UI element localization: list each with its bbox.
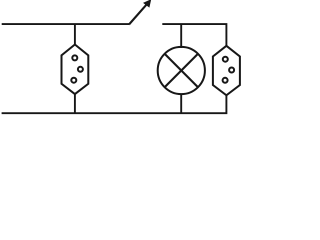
socket X1 hole 2 (middle right) bbox=[78, 67, 83, 72]
switch S1 arrowhead bbox=[144, 0, 150, 6]
wire: top rail to socket X1 bbox=[74, 24, 76, 46]
socket X2 hole 3 (bottom) bbox=[223, 78, 228, 83]
lamp L1 cross diagonal 1 bbox=[165, 54, 198, 87]
socket X1 hole 1 (top) bbox=[72, 55, 77, 60]
wire: socket X1 to bottom rail bbox=[74, 94, 76, 114]
wire: top rail left segment bbox=[2, 23, 129, 25]
wire: lamp L1 to bottom rail bbox=[180, 94, 182, 114]
socket X2 hole 2 (middle right) bbox=[229, 68, 234, 73]
wire: socket X2 to bottom rail with corner bbox=[2, 95, 227, 114]
socket X1 hexagon body bbox=[62, 45, 89, 95]
socket X1 hole 3 (bottom) bbox=[71, 78, 76, 83]
socket X2 hexagon body bbox=[213, 46, 240, 96]
lamp L1 cross diagonal 2 bbox=[165, 54, 198, 87]
wire: top rail right segment with corner down to socket X2 bbox=[162, 24, 226, 46]
socket X2 hole 1 (top) bbox=[223, 57, 228, 62]
switch S1 blade (open) bbox=[129, 4, 147, 25]
wire: top rail to lamp L1 bbox=[180, 24, 182, 49]
lamp L1 circle bbox=[158, 47, 205, 94]
